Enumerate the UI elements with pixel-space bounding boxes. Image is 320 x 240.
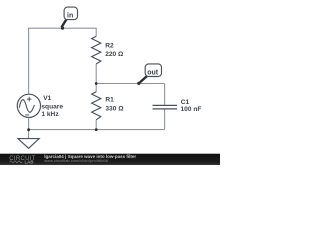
node flag "out" <box>137 64 161 85</box>
resistor R1 <box>92 92 101 120</box>
svg-text:C1: C1 <box>181 99 190 106</box>
node junction R2/R1/middle wire <box>95 82 98 85</box>
voltage source V1 <box>17 94 40 117</box>
node junction R1 bottom <box>95 128 98 131</box>
svg-text:220 Ω: 220 Ω <box>105 51 124 58</box>
wire C1 bottom lead <box>164 109 166 129</box>
wire C1 top lead <box>164 84 166 105</box>
svg-text:www.circuitlab.com/c6dv4pm4t6b: www.circuitlab.com/c6dv4pm4t6b98 <box>44 158 108 163</box>
svg-text:R1: R1 <box>105 97 114 104</box>
node flag "in" <box>61 7 78 30</box>
wire R2 bottom lead <box>95 64 97 84</box>
svg-text:330 Ω: 330 Ω <box>105 106 124 113</box>
wire R2 top lead <box>95 28 97 37</box>
wire bottom <box>29 129 165 131</box>
CircuitLab logo <box>9 156 35 164</box>
wire top <box>29 27 97 29</box>
svg-text:in: in <box>67 13 73 20</box>
svg-text:100 nF: 100 nF <box>181 106 202 113</box>
svg-text:LAB: LAB <box>25 159 34 164</box>
capacitor C1 <box>153 105 178 109</box>
svg-text:square: square <box>41 104 63 111</box>
resistor R2 <box>92 36 101 64</box>
svg-text:1 kHz: 1 kHz <box>41 111 59 118</box>
wire V1 bottom lead <box>28 117 30 129</box>
svg-text:out: out <box>147 69 159 76</box>
wire left vertical <box>28 28 30 95</box>
ground <box>18 139 39 149</box>
node junction V1/ground/bottom wire <box>27 128 30 131</box>
wire middle <box>96 83 164 85</box>
wire R1 top lead <box>95 84 97 92</box>
svg-text:R2: R2 <box>105 43 114 50</box>
wire ground stub <box>28 130 30 139</box>
wire R1 bottom lead <box>95 120 97 130</box>
svg-text:V1: V1 <box>43 95 51 102</box>
